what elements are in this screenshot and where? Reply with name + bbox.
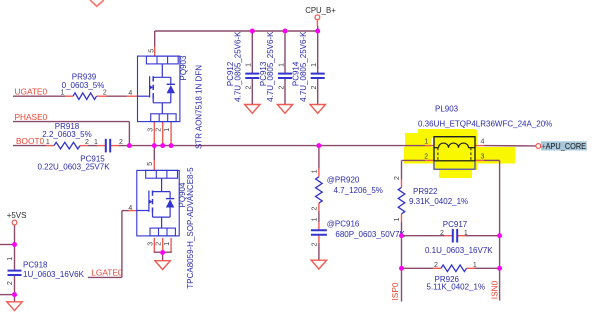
- svg-text:ISN0: ISN0: [490, 280, 500, 299]
- ground PC918: [7, 302, 22, 311]
- svg-text:1: 1: [311, 63, 318, 67]
- capacitor PC916: [311, 217, 406, 246]
- svg-text:0.1U_0603_16V7K: 0.1U_0603_16V7K: [425, 246, 493, 255]
- svg-text:2: 2: [156, 242, 163, 246]
- wire PC913 leads: [284, 31, 286, 105]
- svg-text:PHASE0: PHASE0: [15, 112, 48, 122]
- wire PR926 net: [402, 267, 500, 269]
- svg-text:PL903: PL903: [435, 105, 459, 114]
- svg-text:1: 1: [464, 230, 468, 237]
- svg-text:4.7U_0805_25V6-K: 4.7U_0805_25V6-K: [299, 31, 308, 102]
- node LGATE0: [91, 268, 123, 278]
- wire BOOT0 net: [13, 145, 129, 147]
- wire PR920 chain: [318, 146, 320, 261]
- resistor PR926: [427, 262, 486, 291]
- svg-text:1: 1: [246, 63, 253, 67]
- highlight marker over PL903: [404, 129, 515, 178]
- svg-text:+APU_CORE: +APU_CORE: [541, 141, 586, 151]
- svg-text:1: 1: [473, 262, 477, 269]
- svg-text:1: 1: [424, 139, 428, 146]
- wire top bus CPU_B+ rail: [155, 31, 318, 47]
- svg-text:3: 3: [481, 153, 485, 160]
- svg-text:2: 2: [246, 85, 253, 89]
- capacitor PC917: [425, 220, 493, 255]
- svg-text:1: 1: [164, 128, 171, 132]
- svg-text:1: 1: [394, 217, 401, 221]
- svg-text:3: 3: [147, 128, 154, 132]
- svg-text:LGATE0: LGATE0: [91, 268, 123, 278]
- svg-text:0.36UH_ETQP4LR36WFC_24A_20%: 0.36UH_ETQP4LR36WFC_24A_20%: [418, 120, 552, 129]
- resistor PR939: [61, 73, 133, 100]
- wire PC914 leads: [317, 31, 319, 105]
- wire CPU_B+ drop: [316, 20, 318, 31]
- wire PL903 pin1 stub: [425, 145, 434, 147]
- wire PR922 stubs: [401, 179, 403, 235]
- wire PQ904 pin5 stub: [153, 146, 155, 171]
- wire ISP0 leg: [401, 236, 403, 302]
- svg-text:2: 2: [394, 176, 401, 180]
- svg-text:1: 1: [164, 242, 171, 246]
- svg-text:2: 2: [103, 90, 107, 97]
- capacitor PC912: [226, 31, 259, 102]
- svg-text:2: 2: [85, 139, 89, 146]
- power arrow clipped top: [90, 0, 104, 6]
- svg-text:2: 2: [434, 262, 438, 269]
- wire PL903 pin3 leg: [475, 160, 500, 300]
- wire PC917 net: [402, 235, 500, 237]
- svg-text:2: 2: [424, 153, 428, 160]
- wire UGATE0 net: [13, 95, 138, 97]
- svg-text:680P_0603_50V7K: 680P_0603_50V7K: [335, 230, 405, 239]
- wire PQ903 source stubs: [154, 122, 171, 146]
- svg-text:4.7U_0805_25V6-K: 4.7U_0805_25V6-K: [233, 31, 242, 102]
- svg-text:ISP0: ISP0: [390, 282, 400, 300]
- svg-text:1: 1: [94, 139, 98, 146]
- svg-text:@PR920: @PR920: [327, 175, 360, 184]
- svg-text:0_0603_5%: 0_0603_5%: [62, 81, 105, 90]
- svg-text:1: 1: [312, 217, 319, 221]
- ground PC912: [245, 105, 260, 114]
- svg-text:@PC916: @PC916: [327, 220, 360, 229]
- svg-text:0.22U_0603_25V7K: 0.22U_0603_25V7K: [37, 163, 110, 172]
- inductor PL903: [418, 105, 552, 170]
- power CPU_B+: [305, 6, 336, 20]
- power +5VS: [7, 211, 27, 225]
- node BOOT0: [16, 136, 45, 146]
- resistor PR918: [42, 122, 91, 149]
- svg-text:4: 4: [128, 90, 132, 97]
- svg-text:BOOT0: BOOT0: [16, 136, 45, 146]
- svg-text:3: 3: [147, 242, 154, 246]
- svg-text:4: 4: [128, 205, 132, 212]
- node ISN0: [490, 280, 500, 299]
- power +APU_CORE: [536, 141, 587, 151]
- svg-text:1: 1: [61, 90, 65, 97]
- svg-text:1U_0603_16V6K: 1U_0603_16V6K: [23, 270, 85, 279]
- svg-text:2: 2: [311, 85, 318, 89]
- wire PQ903 pin5 stub: [154, 47, 156, 57]
- svg-text:PC918: PC918: [23, 261, 48, 270]
- svg-text:2: 2: [440, 230, 444, 237]
- svg-text:UGATE0: UGATE0: [15, 87, 48, 97]
- wire phase node: [129, 145, 425, 147]
- node PHASE0: [15, 112, 48, 122]
- svg-text:CPU_B+: CPU_B+: [305, 6, 336, 15]
- ground PQ904: [155, 261, 170, 270]
- capacitor PC913: [259, 31, 292, 102]
- svg-text:2: 2: [312, 207, 319, 211]
- wire LGATE0 to PQ904 gate: [88, 211, 137, 278]
- svg-text:4.7_1206_5%: 4.7_1206_5%: [334, 186, 383, 195]
- svg-text:TPCA8059-H_SOP-ADVANCE8-5: TPCA8059-H_SOP-ADVANCE8-5: [186, 167, 195, 289]
- svg-text:2: 2: [7, 281, 14, 285]
- svg-text:2: 2: [156, 128, 163, 132]
- transistor PQ904: [128, 162, 195, 289]
- svg-text:5.11K_0402_1%: 5.11K_0402_1%: [427, 282, 486, 291]
- svg-text:4: 4: [481, 139, 485, 146]
- resistor PR922: [394, 176, 468, 221]
- ground PC914: [310, 105, 325, 114]
- svg-text:1: 1: [312, 169, 319, 173]
- svg-text:2.2_0603_5%: 2.2_0603_5%: [42, 130, 91, 139]
- resistor PR920: [312, 169, 383, 210]
- node UGATE0: [15, 87, 48, 97]
- svg-text:STR AON7518 1N DFN: STR AON7518 1N DFN: [195, 65, 204, 149]
- svg-text:+5VS: +5VS: [7, 211, 27, 220]
- svg-text:1: 1: [278, 63, 285, 67]
- svg-text:9.31K_0402_1%: 9.31K_0402_1%: [409, 197, 468, 206]
- capacitor PC918: [7, 257, 85, 285]
- transistor PQ903: [138, 49, 204, 149]
- svg-text:PR922: PR922: [413, 187, 438, 196]
- svg-text:1: 1: [7, 257, 14, 261]
- svg-text:1: 1: [46, 139, 50, 146]
- node ISP0: [390, 282, 400, 300]
- svg-text:4.7U_0805_25V6-K: 4.7U_0805_25V6-K: [266, 31, 275, 102]
- svg-text:2: 2: [119, 139, 123, 146]
- svg-text:PQ903: PQ903: [179, 55, 188, 80]
- capacitor PC915: [37, 139, 122, 172]
- svg-text:2: 2: [278, 85, 285, 89]
- capacitor PC914: [292, 31, 325, 102]
- wire PHASE0 net: [13, 122, 129, 146]
- ground PC916: [311, 260, 326, 269]
- wire PQ904 gnd bar: [154, 238, 172, 261]
- svg-text:5: 5: [147, 162, 154, 166]
- svg-text:PC917: PC917: [443, 220, 468, 229]
- wire PL903 pin4 to +APU_CORE: [475, 145, 536, 147]
- svg-text:2: 2: [312, 242, 319, 246]
- svg-text:5: 5: [148, 49, 155, 53]
- ground PC913: [277, 105, 292, 114]
- wire PL903 pin2 leg: [402, 160, 435, 179]
- wire PC912 leads: [251, 31, 253, 105]
- wire +5VS rail: [0, 225, 15, 302]
